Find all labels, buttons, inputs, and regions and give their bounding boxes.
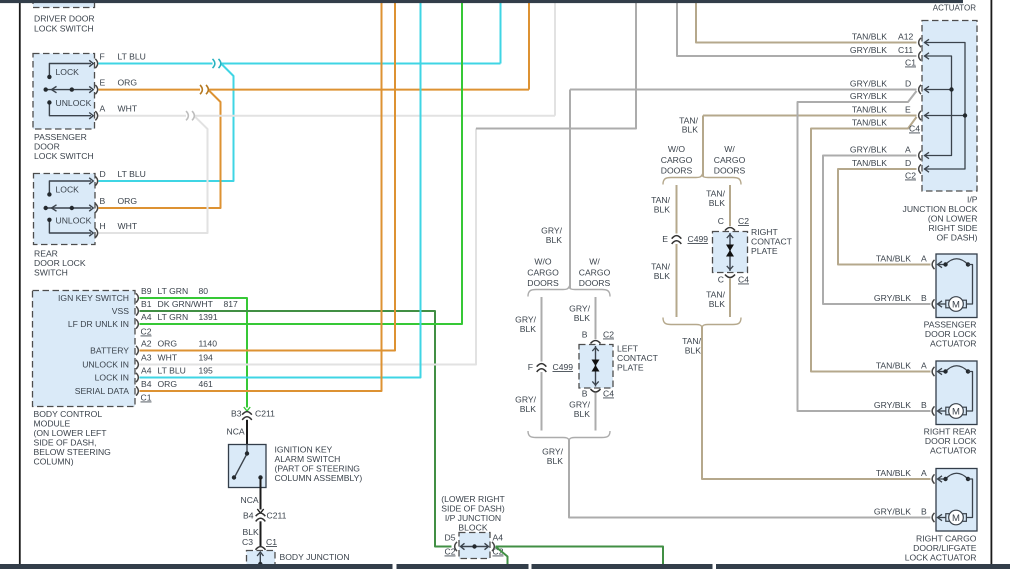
split brace w/o / w/ cargo doors (right) [663, 175, 741, 185]
connector C211 pin B4 [257, 509, 263, 513]
svg-text:1391: 1391 [199, 312, 218, 322]
svg-text:DOOR LOCK: DOOR LOCK [34, 258, 86, 268]
svg-text:B: B [921, 400, 927, 410]
right contact plate [713, 232, 748, 273]
svg-text:GRY/: GRY/ [541, 226, 562, 236]
wire GRY/BLK: contact plate to junction D [570, 89, 917, 91]
svg-text:TAN/BLK: TAN/BLK [852, 158, 887, 168]
svg-text:GRY/: GRY/ [569, 304, 590, 314]
right branch GRY/BLK to left contact plate [595, 297, 597, 339]
svg-text:D5: D5 [445, 533, 456, 543]
svg-text:C: C [718, 216, 724, 226]
connector C499 pin E [675, 235, 679, 244]
svg-text:461: 461 [199, 379, 214, 389]
svg-text:A4: A4 [141, 366, 152, 376]
door lock actuator [936, 469, 977, 532]
svg-text:C2: C2 [141, 327, 152, 337]
left branch GRY/BLK to C499 [541, 297, 543, 362]
svg-text:UNLOCK: UNLOCK [56, 98, 92, 108]
rear switch terminals D/B/H [95, 176, 97, 185]
ignition switch internals [246, 445, 248, 454]
svg-text:(PART OF STEERING: (PART OF STEERING [275, 464, 361, 474]
svg-text:TAN/BLK: TAN/BLK [852, 118, 887, 128]
svg-text:RIGHT CARGO: RIGHT CARGO [916, 534, 977, 544]
svg-text:80: 80 [199, 286, 209, 296]
wire GRY/BLK: junction A to passenger actuator B [823, 156, 931, 305]
wire DK GRN/WHT 817: BCM B1 to I/P junction D5 [140, 311, 452, 547]
svg-text:M: M [952, 513, 960, 524]
svg-text:UNLOCK IN: UNLOCK IN [82, 360, 129, 370]
svg-text:W/: W/ [589, 257, 600, 267]
passenger switch terminals F/E/A [95, 59, 97, 68]
svg-text:BLK: BLK [520, 324, 537, 334]
svg-text:ACTUATOR: ACTUATOR [933, 4, 976, 13]
wire TAN/BLK: junction E row down to right contact plate split [702, 116, 704, 177]
svg-text:TAN/: TAN/ [651, 195, 671, 205]
svg-text:BLK: BLK [547, 456, 564, 466]
svg-text:BLK: BLK [685, 346, 702, 356]
svg-text:BLK: BLK [574, 313, 591, 323]
svg-text:C2: C2 [603, 330, 614, 340]
body control module box [33, 291, 136, 407]
svg-text:NCA: NCA [227, 427, 245, 437]
right border [990, 0, 992, 564]
svg-text:A: A [905, 145, 911, 155]
body junction block fuse arrow [259, 554, 261, 565]
svg-text:LOCK IN: LOCK IN [95, 373, 129, 383]
top bar [0, 0, 963, 3]
svg-text:SWITCH: SWITCH [34, 268, 68, 278]
svg-text:RIGHT REAR: RIGHT REAR [924, 427, 977, 437]
svg-text:DOOR LOCK: DOOR LOCK [925, 436, 977, 446]
wire WHT 194: BCM A3 up to GRY/BLK crossover [140, 129, 477, 365]
svg-text:GRY/BLK: GRY/BLK [874, 400, 911, 410]
wire ORG 1140: BCM A2 up to top [140, 3, 396, 351]
svg-text:GRY/BLK: GRY/BLK [850, 91, 887, 101]
svg-text:BLK: BLK [654, 271, 671, 281]
svg-text:H: H [100, 221, 106, 231]
svg-text:LT GRN: LT GRN [158, 286, 189, 296]
svg-text:LOCK SWITCH: LOCK SWITCH [34, 24, 94, 34]
svg-text:DK GRN/WHT: DK GRN/WHT [158, 299, 214, 309]
svg-text:DOORS: DOORS [527, 278, 559, 288]
svg-text:GRY/BLK: GRY/BLK [850, 79, 887, 89]
svg-text:C4: C4 [909, 124, 920, 134]
svg-text:C: C [718, 275, 724, 285]
svg-text:817: 817 [224, 299, 239, 309]
svg-text:WHT: WHT [118, 221, 138, 231]
svg-text:BLK: BLK [682, 125, 699, 135]
svg-text:F: F [100, 52, 105, 62]
svg-text:LT BLU: LT BLU [118, 169, 146, 179]
svg-text:DOORS: DOORS [661, 166, 693, 176]
svg-text:TAN/BLK: TAN/BLK [876, 468, 911, 478]
svg-text:A: A [921, 361, 927, 371]
svg-text:C1: C1 [141, 393, 152, 403]
svg-text:(ON LOWER: (ON LOWER [928, 214, 978, 224]
svg-text:ALARM SWITCH: ALARM SWITCH [275, 454, 341, 464]
svg-text:195: 195 [199, 366, 214, 376]
svg-text:BLK: BLK [520, 404, 537, 414]
svg-text:A: A [921, 254, 927, 264]
svg-text:TAN/: TAN/ [651, 262, 671, 272]
wire ORG: passenger E to driver switch and rear B [99, 89, 530, 91]
svg-text:ORG: ORG [118, 78, 138, 88]
svg-text:W/: W/ [724, 144, 735, 154]
wire GRY/BLK: junction D to right rear actuator B [798, 91, 931, 411]
svg-text:BLK: BLK [709, 198, 726, 208]
svg-text:B3: B3 [231, 409, 242, 419]
svg-text:CARGO: CARGO [714, 155, 746, 165]
wire DK GRN: A4 to lower section [496, 547, 664, 565]
right branch TAN/BLK to right contact plate [729, 185, 731, 226]
svg-text:GRY/BLK: GRY/BLK [850, 45, 887, 55]
svg-text:194: 194 [199, 353, 214, 363]
svg-text:RIGHT SIDE: RIGHT SIDE [928, 223, 977, 233]
svg-text:DOORS: DOORS [579, 278, 611, 288]
body junction block [247, 551, 276, 568]
wire WHT: passenger A to driver switch and rear H [99, 115, 556, 117]
svg-text:SIDE OF DASH): SIDE OF DASH) [441, 504, 505, 514]
svg-text:CONTACT: CONTACT [617, 353, 659, 363]
wire GRY/BLK: driver actuator to C11 [677, 3, 917, 56]
wire LT GRN 80: BCM B9 down to C211 [140, 298, 248, 408]
wire BLK: C211 to body junction block C3/C1 [260, 521, 262, 546]
svg-text:CARGO: CARGO [579, 268, 611, 278]
left contact plate [579, 345, 613, 389]
svg-text:B1: B1 [141, 299, 152, 309]
split brace w/o / w/ cargo doors (left) [528, 287, 610, 297]
svg-text:C4: C4 [738, 275, 749, 285]
svg-text:C3: C3 [242, 537, 253, 547]
svg-text:CONTACT: CONTACT [751, 237, 793, 247]
svg-text:BLK: BLK [243, 527, 260, 537]
svg-text:BELOW STEERING: BELOW STEERING [34, 447, 112, 457]
svg-text:TAN/BLK: TAN/BLK [876, 254, 911, 264]
svg-text:DOOR: DOOR [34, 142, 60, 152]
svg-text:(ON LOWER LEFT: (ON LOWER LEFT [34, 428, 108, 438]
driver door lock switch (cut off at top) [33, 0, 95, 8]
door lock actuator [936, 254, 977, 318]
svg-text:A2: A2 [141, 339, 152, 349]
svg-text:1140: 1140 [199, 339, 218, 349]
svg-text:PLATE: PLATE [617, 363, 644, 373]
svg-text:LEFT: LEFT [617, 344, 639, 354]
svg-text:B4: B4 [141, 379, 152, 389]
wire BLK: switch to C211 B4 [260, 478, 262, 510]
svg-text:I/P JUNCTION: I/P JUNCTION [445, 513, 501, 523]
svg-text:C211: C211 [267, 511, 287, 521]
svg-text:TAN/: TAN/ [706, 290, 726, 300]
svg-text:GRY/: GRY/ [569, 400, 590, 410]
svg-text:CARGO: CARGO [527, 268, 559, 278]
svg-text:BLOCK: BLOCK [458, 523, 487, 533]
svg-text:GRY/: GRY/ [515, 395, 536, 405]
svg-text:LOCK: LOCK [56, 184, 80, 194]
svg-text:LOCK: LOCK [56, 67, 80, 77]
svg-text:E: E [905, 105, 911, 115]
svg-text:A4: A4 [493, 533, 504, 543]
merge brace (right system) [663, 318, 741, 328]
svg-text:B: B [100, 196, 106, 206]
svg-text:LT BLU: LT BLU [118, 52, 146, 62]
svg-text:D: D [100, 169, 106, 179]
svg-text:B: B [582, 389, 588, 399]
svg-text:BLK: BLK [654, 205, 671, 215]
svg-text:BODY CONTROL: BODY CONTROL [34, 409, 103, 419]
svg-text:WHT: WHT [158, 353, 178, 363]
svg-text:LOCK ACTUATOR: LOCK ACTUATOR [905, 553, 977, 563]
svg-text:W/O: W/O [534, 257, 551, 267]
svg-text:GRY/BLK: GRY/BLK [874, 507, 911, 517]
svg-text:LT BLU: LT BLU [158, 366, 186, 376]
svg-text:LT GRN: LT GRN [158, 312, 189, 322]
svg-text:E: E [662, 234, 668, 244]
passenger door lock switch [33, 54, 95, 130]
svg-text:WHT: WHT [118, 104, 138, 114]
svg-text:PASSENGER: PASSENGER [34, 132, 87, 142]
svg-text:DRIVER DOOR: DRIVER DOOR [34, 14, 95, 24]
svg-text:C1: C1 [905, 58, 916, 68]
svg-text:SIDE OF DASH,: SIDE OF DASH, [34, 438, 97, 448]
ignition key alarm switch [229, 445, 267, 488]
svg-text:B: B [921, 293, 927, 303]
junction internal wiring [924, 43, 965, 170]
merge brace (left system) [528, 431, 610, 440]
rear switch internals [49, 181, 91, 194]
svg-text:E: E [100, 78, 106, 88]
wire GRY/BLK: merge to right cargo actuator B [569, 440, 931, 518]
svg-text:B: B [921, 507, 927, 517]
svg-text:RIGHT: RIGHT [751, 227, 778, 237]
svg-text:BATTERY: BATTERY [90, 346, 129, 356]
svg-text:B9: B9 [141, 286, 152, 296]
svg-text:F: F [528, 362, 533, 372]
svg-text:C211: C211 [255, 409, 275, 419]
svg-text:C499: C499 [553, 362, 574, 372]
svg-text:OF DASH): OF DASH) [936, 233, 977, 243]
svg-text:DOORS: DOORS [714, 166, 746, 176]
svg-text:BLK: BLK [546, 235, 563, 245]
svg-text:A: A [100, 104, 106, 114]
svg-text:PLATE: PLATE [751, 246, 778, 256]
connector C211 pin B3 [244, 407, 250, 411]
svg-text:GRY/BLK: GRY/BLK [874, 293, 911, 303]
svg-text:ACTUATOR: ACTUATOR [930, 339, 976, 349]
svg-text:C4: C4 [603, 389, 614, 399]
wire GRY/BLK: junction D row down to left contact plate split [569, 90, 571, 289]
svg-text:BLK: BLK [709, 299, 726, 309]
wire TAN/BLK: junction D to passenger actuator A [838, 169, 931, 265]
svg-text:VSS: VSS [112, 306, 129, 316]
svg-text:D: D [905, 158, 911, 168]
svg-text:REAR: REAR [34, 249, 58, 259]
svg-text:BLK: BLK [574, 409, 591, 419]
svg-text:ORG: ORG [158, 339, 178, 349]
wire BLK: C211 to ignition key alarm switch [246, 420, 248, 445]
wire LT GRN 1391: BCM A4 up to top [140, 3, 463, 324]
svg-text:LOCK SWITCH: LOCK SWITCH [34, 151, 94, 161]
svg-text:GRY/: GRY/ [515, 315, 536, 325]
svg-text:IGNITION KEY: IGNITION KEY [275, 445, 333, 455]
passenger switch internals: LOCK/UNLOCK contacts [49, 64, 91, 77]
svg-text:TAN/BLK: TAN/BLK [852, 32, 887, 42]
svg-text:I/P: I/P [967, 195, 978, 205]
svg-text:LF DR UNLK IN: LF DR UNLK IN [68, 319, 129, 329]
svg-text:BODY JUNCTION: BODY JUNCTION [280, 552, 350, 562]
svg-text:GRY/: GRY/ [542, 447, 563, 457]
svg-text:MODULE: MODULE [34, 419, 71, 429]
svg-text:IGN KEY SWITCH: IGN KEY SWITCH [58, 293, 129, 303]
left branch TAN/BLK to C499 [676, 185, 678, 234]
wire ORG 461: BCM B4 up to top [140, 3, 382, 391]
left border [19, 3, 21, 564]
svg-text:TAN/: TAN/ [706, 189, 726, 199]
svg-text:TAN/BLK: TAN/BLK [852, 105, 887, 115]
svg-text:B: B [582, 330, 588, 340]
svg-text:B4: B4 [243, 511, 254, 521]
wire LT BLU 195: BCM A4 up to top [140, 3, 421, 378]
junction D5-A4 internal wire [455, 542, 457, 551]
wire TAN/BLK: junction E to right rear actuator A [811, 117, 931, 372]
wire LT BLU: passenger F to driver switch and rear D [99, 63, 501, 65]
bottom bar segments [0, 564, 393, 569]
svg-text:UNLOCK: UNLOCK [56, 215, 92, 225]
svg-text:C11: C11 [898, 45, 913, 55]
svg-text:M: M [952, 406, 960, 417]
svg-text:DOOR/LIFGATE: DOOR/LIFGATE [913, 543, 977, 553]
wire GRY/BLK crossover to driver actuator [476, 3, 636, 129]
svg-text:TAN/BLK: TAN/BLK [876, 361, 911, 371]
wire TAN/BLK: merge to right cargo actuator A [702, 327, 931, 479]
svg-text:ORG: ORG [118, 196, 138, 206]
svg-text:C2: C2 [445, 547, 456, 557]
svg-text:SERIAL DATA: SERIAL DATA [75, 386, 130, 396]
svg-text:TAN/: TAN/ [682, 336, 702, 346]
svg-text:A3: A3 [141, 353, 152, 363]
svg-text:A12: A12 [898, 32, 914, 42]
svg-text:COLUMN): COLUMN) [34, 457, 74, 467]
svg-text:JUNCTION BLOCK: JUNCTION BLOCK [903, 204, 978, 214]
svg-text:ORG: ORG [158, 379, 178, 389]
svg-text:A: A [921, 468, 927, 478]
wire TAN/BLK: contact plate to junction E [703, 115, 917, 117]
rear door lock switch [34, 174, 96, 245]
wire TAN/BLK: driver actuator to A12 [696, 3, 917, 43]
svg-text:A4: A4 [141, 312, 152, 322]
connector C499 pin F [540, 363, 544, 372]
svg-text:W/O: W/O [668, 144, 685, 154]
svg-text:C2: C2 [905, 171, 916, 181]
svg-text:ACTUATOR: ACTUATOR [930, 446, 976, 456]
svg-text:GRY/BLK: GRY/BLK [850, 145, 887, 155]
svg-text:C499: C499 [688, 234, 709, 244]
svg-text:CARGO: CARGO [661, 155, 693, 165]
door lock actuator [936, 361, 977, 425]
svg-text:C1: C1 [266, 537, 277, 547]
svg-text:DOOR LOCK: DOOR LOCK [925, 329, 977, 339]
svg-text:D: D [905, 79, 911, 89]
svg-text:NCA: NCA [241, 495, 259, 505]
svg-text:C2: C2 [738, 216, 749, 226]
svg-text:PASSENGER: PASSENGER [924, 320, 977, 330]
svg-text:COLUMN ASSEMBLY): COLUMN ASSEMBLY) [275, 473, 363, 483]
svg-text:(LOWER RIGHT: (LOWER RIGHT [441, 494, 505, 504]
svg-text:M: M [952, 299, 960, 310]
